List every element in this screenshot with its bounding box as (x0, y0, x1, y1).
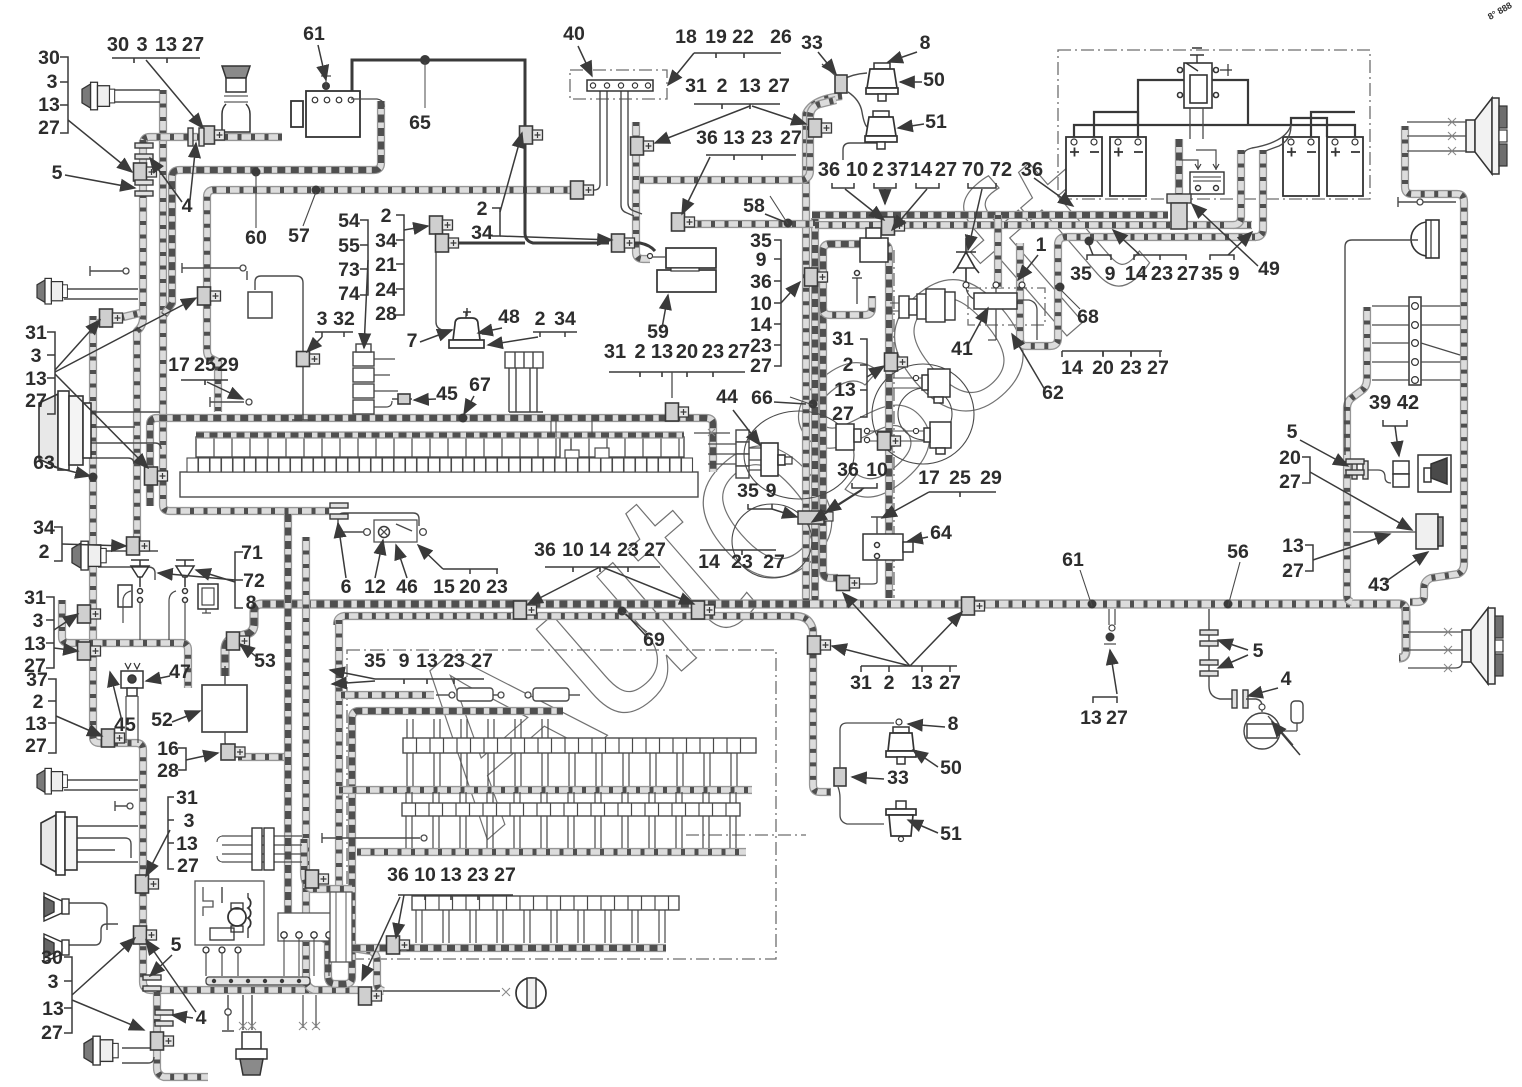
resistor block (1190, 164, 1224, 194)
relay circles group (732, 364, 974, 578)
svg-text:2: 2 (477, 198, 488, 220)
wire strip40 drops (588, 90, 642, 216)
harness 57 (207, 190, 581, 412)
svg-text:24: 24 (375, 279, 397, 301)
svg-text:21: 21 (375, 254, 397, 276)
svg-text:31: 31 (25, 322, 47, 344)
svg-text:8: 8 (948, 713, 959, 735)
junction dot 65 (420, 55, 430, 65)
svg-text:23: 23 (467, 864, 489, 886)
svg-text:62: 62 (1042, 382, 1064, 404)
component 51 (865, 111, 897, 149)
wire lamp L5 leads (64, 289, 138, 299)
svg-text:27: 27 (471, 650, 493, 672)
svg-text:25: 25 (194, 354, 216, 376)
svg-text:46: 46 (396, 576, 418, 598)
svg-text:36: 36 (837, 459, 859, 481)
wires from bus down with clips (303, 995, 316, 1028)
svg-text:28: 28 (157, 760, 179, 782)
harness bottom speaker stub (1399, 607, 1406, 658)
svg-text:59: 59 (647, 321, 669, 343)
wire headlamp leads mid-left (91, 412, 161, 464)
harness dark bus y215 (812, 211, 1168, 219)
svg-text:13: 13 (1080, 707, 1102, 729)
svg-text:27: 27 (939, 672, 961, 694)
wire 3-32 chain (255, 276, 314, 420)
harness battery drop 3 (1255, 150, 1263, 237)
svg-text:27: 27 (25, 390, 47, 412)
svg-text:15: 15 (433, 576, 455, 598)
svg-text:17: 17 (918, 467, 940, 489)
svg-text:27: 27 (25, 735, 47, 757)
svg-text:72: 72 (990, 159, 1012, 181)
wire fuse chain row (436, 694, 452, 696)
component 48 bell (449, 308, 484, 348)
horn right (1411, 220, 1439, 258)
svg-text:14: 14 (910, 159, 933, 181)
svg-text:61: 61 (1062, 549, 1084, 571)
svg-text:43: 43 (1368, 574, 1390, 596)
wire 48 bell feed (436, 232, 452, 330)
battery drop connector (1167, 194, 1191, 203)
lamp L7 big (41, 812, 77, 875)
svg-text:58: 58 (743, 195, 765, 217)
harness comb chain dark loop (288, 514, 563, 984)
wire lamp L7 leads (77, 826, 138, 862)
svg-text:35: 35 (1070, 263, 1092, 285)
harness center light vertical (806, 96, 842, 600)
lamp L1 top-left (82, 82, 115, 110)
battery bus wires (1074, 125, 1355, 137)
svg-text:73: 73 (338, 259, 360, 281)
wire flasher 6-12 loop (338, 513, 424, 532)
buzzer 39-42 (1393, 461, 1409, 487)
svg-text:57: 57 (288, 225, 310, 247)
starter relay top (1178, 48, 1233, 108)
wire thick 61 to 65 run (352, 60, 525, 128)
wire right tap (1398, 197, 1456, 207)
svg-text:13: 13 (25, 713, 47, 735)
lamp L4 (72, 541, 106, 570)
svg-text:13: 13 (38, 94, 60, 116)
svg-text:10: 10 (414, 864, 436, 886)
svg-text:33: 33 (887, 767, 909, 789)
svg-text:27: 27 (494, 864, 516, 886)
svg-text:23: 23 (486, 576, 508, 598)
wire horns L8 L9 leads (66, 903, 118, 945)
svg-text:14: 14 (1125, 263, 1148, 285)
harness bottom-left stub (157, 992, 208, 1077)
svg-text:60: 60 (245, 227, 267, 249)
relay R1 (922, 369, 950, 403)
wire bus gauge drop right (1209, 609, 1234, 699)
svg-text:4: 4 (196, 1007, 207, 1029)
harness left long vertical to bottom bus (93, 316, 358, 990)
svg-text:35: 35 (364, 650, 386, 672)
svg-text:40: 40 (563, 23, 585, 45)
harness headlamp stub top-left / lamp vertical (163, 90, 330, 511)
component 62 dashed box (968, 288, 1045, 325)
comb row1 top bar (196, 431, 684, 438)
svg-text:27: 27 (182, 34, 204, 56)
svg-text:27: 27 (1177, 263, 1199, 285)
svg-text:56: 56 (1227, 541, 1249, 563)
wire bulb L11 leads (243, 995, 252, 1030)
bulb L11 bottom (236, 1032, 267, 1075)
svg-text:23: 23 (702, 341, 724, 363)
connector 16-28 (221, 744, 245, 760)
svg-text:5: 5 (52, 162, 63, 184)
X junction connector (222, 836, 302, 862)
leader stubs from dots (256, 174, 1240, 632)
wire lamp L10 leads (122, 1048, 155, 1063)
regulator relay box bottom-left (195, 881, 264, 945)
sensor 72 (176, 560, 218, 609)
svg-text:12: 12 (364, 576, 386, 598)
svg-text:23: 23 (1120, 357, 1142, 379)
svg-text:2: 2 (535, 308, 546, 330)
svg-text:20: 20 (459, 576, 481, 598)
svg-text:20: 20 (1092, 357, 1114, 379)
svg-text:50: 50 (940, 757, 962, 779)
harness 58 (684, 220, 813, 228)
marker lamp box (1416, 514, 1443, 549)
harness battery drop 2 (1233, 150, 1241, 225)
svg-text:13: 13 (739, 75, 761, 97)
component 41 (974, 293, 1017, 309)
svg-text:9: 9 (1105, 263, 1116, 285)
svg-text:2: 2 (843, 354, 854, 376)
harness 60 (dark) (164, 101, 381, 315)
svg-text:36: 36 (750, 271, 772, 293)
harness main bottom bus left (dark) (225, 604, 806, 676)
svg-text:68: 68 (1077, 306, 1099, 328)
relay in inner loop (852, 228, 888, 304)
cab dash-dot boundary (893, 250, 895, 598)
harness 57 right branch (640, 100, 836, 180)
wire bus to lamp 55 (383, 990, 500, 992)
lamp 55 circle (516, 978, 546, 1008)
svg-text:9: 9 (1229, 263, 1240, 285)
svg-text:13: 13 (1282, 535, 1304, 557)
svg-text:35: 35 (1201, 263, 1223, 285)
svg-text:27: 27 (780, 127, 802, 149)
filter group 2 bottom center (834, 768, 846, 786)
svg-text:2: 2 (884, 672, 895, 694)
svg-text:42: 42 (1397, 392, 1419, 414)
svg-text:34: 34 (375, 230, 397, 252)
svg-text:2: 2 (634, 341, 645, 363)
svg-text:51: 51 (925, 111, 947, 133)
svg-text:2: 2 (717, 75, 728, 97)
relay R2 (924, 422, 951, 454)
svg-text:36: 36 (696, 127, 718, 149)
svg-text:31: 31 (176, 787, 198, 809)
svg-text:27: 27 (1282, 560, 1304, 582)
svg-text:5: 5 (1287, 421, 1298, 443)
svg-text:19: 19 (705, 26, 727, 48)
component 67 grid (505, 352, 543, 412)
svg-text:45: 45 (114, 714, 136, 736)
svg-text:48: 48 (498, 306, 520, 328)
svg-text:25: 25 (949, 467, 971, 489)
comb row4 (412, 896, 679, 943)
svg-text:5: 5 (171, 934, 182, 956)
diode 70-72 (953, 238, 979, 285)
svg-text:2: 2 (33, 691, 44, 713)
svg-text:33: 33 (801, 32, 823, 54)
svg-text:72: 72 (243, 570, 265, 592)
svg-text:3: 3 (317, 308, 328, 330)
svg-text:27: 27 (1106, 707, 1128, 729)
svg-text:55: 55 (338, 235, 360, 257)
svg-text:3: 3 (136, 34, 147, 56)
svg-text:27: 27 (644, 539, 666, 561)
svg-text:3: 3 (48, 971, 59, 993)
svg-text:13: 13 (416, 650, 438, 672)
svg-text:13: 13 (651, 341, 673, 363)
svg-text:54: 54 (338, 210, 360, 232)
svg-text:29: 29 (980, 467, 1002, 489)
lamp L5 (37, 278, 67, 304)
svg-text:23: 23 (750, 335, 772, 357)
svg-text:49: 49 (1258, 258, 1280, 280)
svg-text:22: 22 (732, 26, 754, 48)
sensor 71 (118, 560, 149, 607)
svg-text:26: 26 (770, 26, 792, 48)
watermark Autosoft (345, 99, 1185, 879)
harness middle light vertical x339 (339, 620, 384, 991)
svg-text:9: 9 (399, 650, 410, 672)
svg-text:65: 65 (409, 112, 431, 134)
svg-text:16: 16 (157, 738, 179, 760)
svg-text:27: 27 (1147, 357, 1169, 379)
harness right top speaker feed (1405, 126, 1464, 602)
harness 41 feeder (994, 215, 1002, 288)
wire dangling tap bottom (222, 995, 234, 1031)
svg-text:53: 53 (254, 650, 276, 672)
wire lamp L6 leads (64, 780, 138, 790)
svg-text:13: 13 (155, 34, 177, 56)
wire small lamp L4 leads (98, 551, 158, 580)
svg-text:71: 71 (241, 542, 263, 564)
comb row3 (402, 792, 740, 848)
svg-text:6: 6 (341, 576, 352, 598)
speaker top right (1466, 98, 1507, 174)
component 47 (121, 663, 143, 696)
headlamp mid-left (39, 391, 91, 470)
component 12/46 switch box (374, 520, 417, 542)
connectors along harnesses (202, 126, 225, 144)
svg-text:13: 13 (42, 998, 64, 1020)
svg-text:13: 13 (176, 833, 198, 855)
svg-text:13: 13 (24, 633, 46, 655)
svg-text:66: 66 (751, 387, 773, 409)
harness y237 run with drop (1020, 237, 1256, 346)
wire tap symbols (90, 266, 126, 276)
svg-text:64: 64 (930, 522, 952, 544)
svg-text:8: 8 (246, 592, 257, 614)
component 51b (886, 801, 916, 842)
svg-text:8: 8 (920, 32, 931, 54)
svg-text:23: 23 (617, 539, 639, 561)
svg-text:50: 50 (923, 69, 945, 91)
washer bottle top (222, 66, 250, 132)
svg-text:31: 31 (685, 75, 707, 97)
harness main bottom bus right (806, 604, 1406, 658)
svg-text:14: 14 (750, 314, 772, 336)
svg-text:27: 27 (763, 551, 785, 573)
harness top-left horizontal (143, 137, 282, 144)
harness right strip vertical (1347, 307, 1367, 602)
component 54-74 fuse stack (353, 344, 374, 414)
svg-text:36: 36 (818, 159, 840, 181)
starter 59 (648, 248, 717, 292)
svg-text:27: 27 (750, 355, 772, 377)
harness sensors bottom-left run (62, 600, 188, 688)
svg-text:34: 34 (33, 517, 55, 539)
svg-text:18: 18 (675, 26, 697, 48)
component 43 horn box (1418, 455, 1451, 492)
svg-text:31: 31 (24, 587, 46, 609)
svg-text:17: 17 (168, 354, 190, 376)
svg-text:35: 35 (737, 480, 759, 502)
harness light bus y225 (815, 221, 1252, 229)
comb row2 (403, 738, 756, 786)
component 61 box (291, 91, 360, 137)
svg-text:27: 27 (935, 159, 957, 181)
comb row1 fuse strip (180, 472, 698, 497)
svg-text:10: 10 (846, 159, 868, 181)
courtesy box 3-32 (248, 292, 272, 318)
terminal strip 40 (587, 80, 653, 91)
svg-text:3: 3 (184, 810, 195, 832)
harness battery drop 1 (1175, 139, 1183, 213)
svg-text:30: 30 (107, 34, 129, 56)
svg-text:44: 44 (716, 386, 738, 408)
svg-text:23: 23 (751, 127, 773, 149)
lamp L6 (37, 768, 67, 794)
harness light bus y612 (337, 616, 831, 792)
svg-text:13: 13 (834, 379, 856, 401)
harness left vertical V_B (137, 140, 143, 548)
component 50 (866, 63, 898, 101)
component 44 connector stack (736, 430, 749, 478)
svg-text:36: 36 (1021, 159, 1043, 181)
svg-text:70: 70 (962, 159, 984, 181)
harness comb row4 bar (dark) (339, 944, 666, 952)
harness comb row1 top (dark) (150, 418, 713, 506)
junction dots (252, 168, 261, 177)
harness X-connector feeder (304, 839, 352, 889)
svg-text:4: 4 (1281, 668, 1292, 690)
svg-text:5: 5 (1253, 640, 1264, 662)
svg-text:29: 29 (217, 354, 239, 376)
lower cab dashed box (347, 650, 776, 959)
wire lamp1 leads (112, 90, 160, 102)
svg-text:7: 7 (407, 330, 418, 352)
svg-text:63: 63 (33, 452, 55, 474)
svg-text:67: 67 (469, 374, 491, 396)
svg-text:13: 13 (911, 672, 933, 694)
svg-text:20: 20 (1279, 447, 1301, 469)
component 45 link (392, 398, 412, 400)
svg-text:9: 9 (766, 480, 777, 502)
svg-text:45: 45 (436, 383, 458, 405)
svg-text:14: 14 (698, 551, 720, 573)
harness middle light vertical x306 (306, 537, 314, 990)
svg-text:27: 27 (832, 403, 854, 425)
svg-text:30: 30 (38, 47, 60, 69)
svg-text:14: 14 (1061, 357, 1083, 379)
component 44 switch (761, 443, 792, 476)
svg-text:27: 27 (728, 341, 750, 363)
svg-text:27: 27 (768, 75, 790, 97)
svg-text:2: 2 (381, 205, 392, 227)
harness 40 vertical x636 (636, 122, 650, 259)
pin strip bar (206, 977, 310, 985)
svg-text:47: 47 (169, 661, 191, 683)
tall box lower mid (330, 892, 352, 962)
svg-text:36: 36 (534, 539, 556, 561)
stub 13-27 below bus (1109, 609, 1115, 625)
harness center dark vertical pair (811, 218, 819, 600)
terminal strip 40 dashed box (570, 70, 667, 99)
fuel gauge (1244, 713, 1280, 749)
svg-text:28: 28 (375, 303, 397, 325)
right terminal strip (1409, 297, 1421, 385)
svg-text:61: 61 (303, 23, 325, 45)
comb row1 top teeth (551, 421, 592, 437)
harness V_A diagonal link (94, 313, 140, 324)
horn L9 (44, 934, 69, 962)
wires 50 51 33 (842, 73, 867, 127)
svg-text:74: 74 (338, 283, 360, 305)
svg-text:34: 34 (554, 308, 576, 330)
svg-text:23: 23 (443, 650, 465, 672)
small notch pair (565, 448, 609, 458)
lamp L10 bottom-left (84, 1036, 118, 1065)
svg-text:3: 3 (47, 71, 58, 93)
svg-text:51: 51 (940, 823, 962, 845)
svg-text:9: 9 (756, 249, 767, 271)
component 50b (886, 727, 916, 764)
harness inner relay stub (823, 296, 872, 315)
connector bank 4-circle (278, 913, 332, 941)
connector 33 (835, 75, 847, 93)
svg-text:27: 27 (38, 117, 60, 139)
horn L8 (44, 893, 69, 921)
svg-text:23: 23 (1151, 263, 1173, 285)
frame centerline dash-dot (686, 834, 806, 836)
battery compartment dashed box (1058, 50, 1370, 199)
svg-text:31: 31 (850, 672, 872, 694)
svg-text:10: 10 (562, 539, 584, 561)
svg-text:20: 20 (676, 341, 698, 363)
harness 52 feeder stub (238, 753, 290, 761)
svg-text:37: 37 (26, 669, 48, 691)
svg-text:13: 13 (25, 368, 47, 390)
svg-text:27: 27 (1279, 471, 1301, 493)
svg-text:13: 13 (723, 127, 745, 149)
svg-text:39: 39 (1369, 392, 1391, 414)
svg-text:10: 10 (750, 293, 772, 315)
svg-text:3: 3 (33, 610, 44, 632)
svg-text:31: 31 (604, 341, 626, 363)
svg-text:27: 27 (177, 855, 199, 877)
solenoid component mid-center (836, 424, 861, 450)
svg-text:34: 34 (471, 222, 493, 244)
